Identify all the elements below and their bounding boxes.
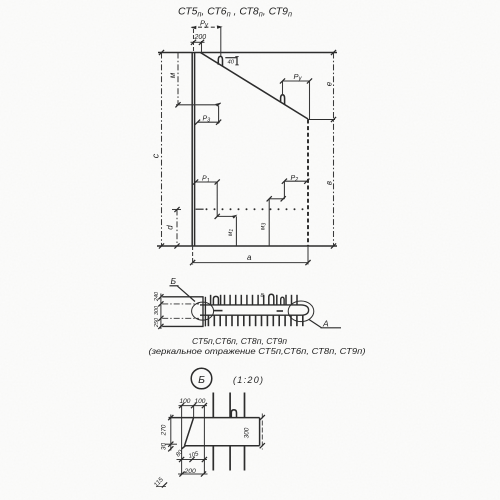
- svg-text:Б: Б: [198, 374, 205, 386]
- svg-text:100: 100: [180, 398, 191, 405]
- svg-text:м3: м3: [260, 223, 268, 230]
- svg-text:(1:20): (1:20): [233, 375, 263, 385]
- svg-text:СТ5п,СТ6п, СТ8п, СТ9п: СТ5п,СТ6п, СТ8п, СТ9п: [192, 337, 288, 346]
- svg-text:300: 300: [244, 427, 251, 438]
- svg-text:30: 30: [161, 443, 168, 451]
- svg-text:Б: Б: [171, 276, 177, 286]
- svg-text:200: 200: [184, 468, 197, 475]
- svg-text:Р2: Р2: [291, 175, 299, 183]
- svg-text:е: е: [325, 81, 334, 86]
- svg-text:(зеркальное отражение СТ5п,СТ6: (зеркальное отражение СТ5п,СТ6п, СТ8п, С…: [149, 346, 366, 356]
- svg-text:в: в: [325, 181, 334, 185]
- svg-text:а: а: [247, 253, 252, 262]
- svg-text:А: А: [322, 318, 329, 328]
- svg-text:300: 300: [154, 305, 160, 315]
- svg-text:250: 250: [154, 317, 160, 328]
- svg-text:240: 240: [154, 291, 160, 302]
- svg-text:100: 100: [195, 398, 206, 405]
- svg-text:40: 40: [228, 59, 235, 65]
- svg-text:d: d: [166, 225, 175, 230]
- svg-text:Р1: Р1: [202, 176, 210, 184]
- svg-text:м1: м1: [227, 229, 235, 236]
- svg-text:c: c: [151, 153, 161, 158]
- svg-text:СТ5п, СТ6п , СТ8п, СТ9п: СТ5п, СТ6п , СТ8п, СТ9п: [178, 7, 292, 19]
- svg-text:м: м: [168, 72, 177, 78]
- svg-text:8,: 8,: [261, 293, 266, 299]
- svg-text:270: 270: [161, 424, 168, 436]
- svg-text:200: 200: [194, 34, 207, 41]
- svg-text:Р3: Р3: [203, 115, 212, 123]
